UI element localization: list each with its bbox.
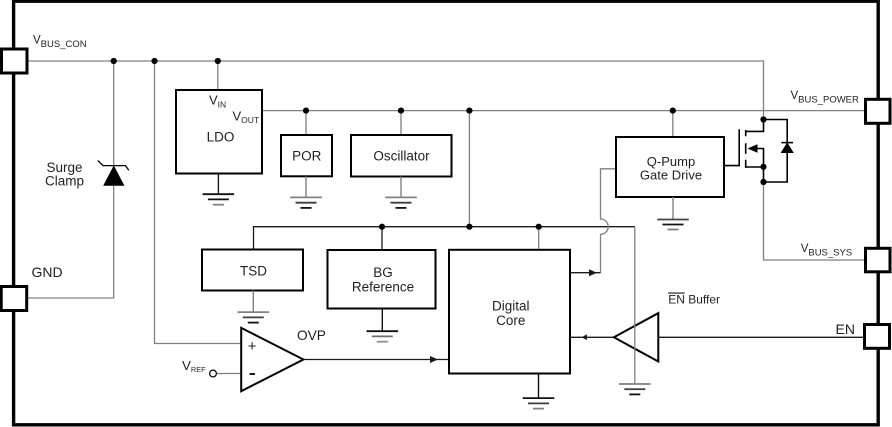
svg-text:EN: EN bbox=[836, 321, 855, 337]
wire: POR stub bbox=[305, 111, 307, 135]
ground: LDO bbox=[203, 174, 235, 205]
junction: VOUT rail / Oscillator bbox=[398, 108, 404, 114]
ground: TSD bbox=[238, 291, 270, 323]
buffer U2 (EN buffer, pointing left) bbox=[614, 313, 658, 361]
junction: bus / Digital Core bbox=[536, 224, 542, 230]
junction: VBUS_CON / OVP sense riser bbox=[151, 58, 157, 64]
ground: Q-Pump bbox=[657, 197, 689, 230]
svg-text:Gate Drive: Gate Drive bbox=[640, 168, 702, 183]
arrow: into Digital Core from OVP bbox=[430, 356, 438, 363]
svg-text:Clamp: Clamp bbox=[45, 174, 84, 189]
wire: Digital Core output to gate riser bbox=[570, 272, 601, 274]
svg-text:LDO: LDO bbox=[207, 130, 235, 145]
junction: bus / BG Reference bbox=[379, 224, 385, 230]
svg-text:+: + bbox=[248, 338, 257, 355]
junction: VOUT rail / Q-Pump bbox=[670, 108, 676, 114]
junction: VBUS_CON / LDO VIN bbox=[215, 58, 221, 64]
svg-text:EN Buffer: EN Buffer bbox=[668, 293, 720, 307]
wire: riser to OVP + input bbox=[155, 61, 242, 344]
wire: bus drop to EN buffer ground bbox=[634, 227, 636, 384]
ground: Oscillator bbox=[385, 177, 417, 208]
surge clamp zener diode D1 bbox=[98, 160, 129, 185]
block TSD bbox=[202, 250, 303, 291]
svg-text:POR: POR bbox=[292, 149, 322, 164]
wire: Q-Pump top stub bbox=[672, 111, 674, 137]
wire: LDO VIN stub bbox=[217, 61, 219, 90]
svg-text:Digital: Digital bbox=[492, 299, 530, 314]
block LDO bbox=[176, 90, 262, 174]
drain stub bbox=[746, 120, 764, 132]
channel segments bbox=[745, 130, 747, 168]
arrow: into gate riser bbox=[589, 269, 597, 276]
wire: EN pin to buffer input bbox=[658, 336, 864, 338]
block Oscillator bbox=[351, 135, 452, 177]
svg-text:Reference: Reference bbox=[352, 280, 414, 295]
wire: internal supply bus with TSD drop and BG riser bbox=[254, 227, 635, 250]
diode D2 (body diode) bbox=[764, 120, 794, 183]
wire: Q-Pump gate control riser with hop over bus bbox=[601, 169, 617, 273]
source to body-diode node bbox=[763, 167, 765, 182]
wire: VREF input to OVP - bbox=[217, 373, 242, 375]
junction: MOSFET source node bbox=[760, 164, 766, 170]
ground: EN buffer bbox=[619, 384, 651, 395]
junction: VOUT rail / POR bbox=[303, 108, 309, 114]
wire: riser VOUT rail to bus bbox=[468, 111, 470, 227]
gate wire bbox=[724, 129, 739, 165]
svg-text:BG: BG bbox=[373, 265, 393, 280]
block POR bbox=[281, 135, 332, 176]
wire: VBUS_SYS from MOSFET source to pin bbox=[764, 182, 866, 260]
wire: EN buffer output to Digital Core bbox=[570, 336, 614, 338]
ground: Digital Core bbox=[523, 374, 555, 409]
pin VBUS_SYS bbox=[866, 248, 891, 271]
pin VBUS_CON bbox=[2, 49, 28, 73]
svg-text:Core: Core bbox=[496, 313, 525, 328]
wire: Oscillator stub bbox=[400, 111, 402, 135]
junction: VOUT rail / bus riser bbox=[466, 108, 472, 114]
block Digital Core bbox=[449, 250, 570, 374]
wire: LDO VOUT rail to VBUS_POWER pin bbox=[262, 110, 866, 112]
junction: MOSFET drain node bbox=[760, 116, 766, 122]
wire: OVP output to Digital Core bbox=[303, 359, 449, 361]
pin VBUS_POWER bbox=[866, 99, 891, 123]
source stub bbox=[746, 166, 764, 168]
junction: VBUS_CON / surge clamp bbox=[111, 58, 117, 64]
junction: body diode anode node bbox=[760, 179, 766, 185]
op-amp comparator OVP bbox=[241, 328, 303, 391]
ground: BG Reference bbox=[367, 309, 399, 342]
block BG Reference bbox=[328, 250, 436, 309]
pin EN bbox=[865, 325, 890, 349]
svg-text:Oscillator: Oscillator bbox=[373, 148, 430, 163]
arrow: into Digital Core from EN buffer bbox=[582, 334, 587, 340]
wire: VBUS_CON rail from pin to MOSFET drain riser bbox=[28, 61, 764, 120]
transistor Q1 (NMOS pass FET) bbox=[724, 120, 764, 183]
wire: surge clamp riser (upper) bbox=[113, 61, 115, 166]
arrow: MOSFET substrate bbox=[748, 144, 758, 153]
terminal circle VREF bbox=[210, 370, 217, 377]
svg-text:TSD: TSD bbox=[240, 263, 267, 278]
svg-text:GND: GND bbox=[32, 264, 63, 280]
svg-text:OVP: OVP bbox=[297, 328, 326, 343]
junction: bus / VOUT riser bbox=[466, 224, 472, 230]
ground: POR bbox=[290, 176, 322, 208]
block Q-Pump Gate Drive bbox=[616, 137, 724, 197]
pin GND bbox=[1, 287, 27, 311]
wire: Digital Core top riser bbox=[538, 227, 540, 250]
wire: surge clamp to GND pin bbox=[28, 185, 114, 298]
substrate terminal bbox=[757, 149, 764, 167]
